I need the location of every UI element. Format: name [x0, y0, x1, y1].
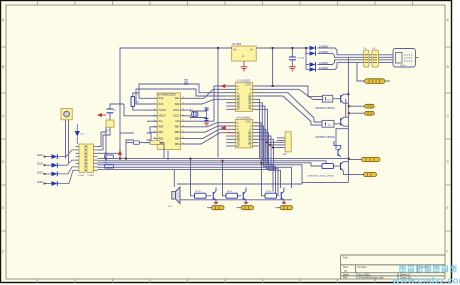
wire transistorA collector/emitter	[344, 93, 349, 95]
svg-text:R6 1k: R6 1k	[227, 191, 232, 193]
reset switch S1	[106, 120, 114, 132]
wire mcu rb0 to connB	[186, 123, 227, 127]
svg-text:10: 10	[182, 143, 184, 145]
svg-text:RB0: RB0	[159, 126, 164, 129]
transistor Q7	[334, 141, 341, 157]
svg-text:RA2: RA2	[159, 97, 164, 100]
led D8	[44, 170, 76, 186]
wire emitter rail bottom cells	[180, 199, 292, 201]
svg-text:LED1: LED1	[37, 154, 44, 157]
wire pill1 stub	[348, 105, 364, 107]
wire crystal to osc2	[186, 116, 194, 118]
svg-text:PLUG: PLUG	[400, 65, 406, 67]
transistor Q4	[339, 94, 344, 103]
wire conn B drop 5	[259, 136, 271, 167]
svg-text:16: 16	[182, 109, 184, 111]
svg-text:U4 ULN2003: U4 ULN2003	[237, 116, 251, 119]
wire reset to mcu mclr	[124, 104, 147, 116]
wire bus line 6	[98, 169, 277, 171]
svg-text:(CDTB5TA-HPF00): (CDTB5TA-HPF00)	[315, 136, 335, 139]
svg-text:OSC2: OSC2	[173, 115, 180, 118]
title block outline	[341, 255, 445, 279]
bus inline component F2	[104, 153, 114, 159]
pill connector P4	[364, 172, 377, 176]
svg-text:17: 17	[182, 103, 184, 105]
cap bar CB2	[372, 50, 378, 67]
svg-text:U1 7805: U1 7805	[232, 43, 242, 46]
svg-text:F: F	[447, 250, 449, 254]
svg-text:RB1: RB1	[159, 131, 164, 134]
led D5	[44, 150, 76, 159]
wire big top loop	[120, 48, 232, 157]
wire mcu loop A	[139, 84, 226, 98]
svg-text:16COL8DRV: 16COL8DRV	[248, 130, 252, 145]
sip resistor pack	[283, 132, 291, 156]
pill connector P2	[365, 111, 375, 115]
transistor Q6	[339, 162, 344, 171]
wire mcu vdd to power arrow	[186, 86, 222, 121]
svg-text:R7 1k: R7 1k	[266, 191, 271, 193]
wire mcu pin18 to connA	[186, 99, 227, 104]
svg-text:RB4: RB4	[175, 143, 180, 146]
wire speaker top feed	[173, 170, 175, 187]
svg-text:5: 5	[154, 120, 155, 122]
wire bus line 3	[98, 163, 323, 166]
svg-text:7: 7	[154, 131, 155, 133]
wire drop to cell1 resistor	[191, 159, 195, 196]
wire crystal caps junction	[197, 108, 207, 111]
wire mcu rb2 to connB	[186, 129, 227, 138]
resistor R5	[195, 191, 212, 198]
wire conn A drop 3	[259, 106, 265, 163]
pill connector P3	[362, 157, 380, 161]
pill connector P1	[365, 104, 375, 108]
wire rail y184	[177, 183, 302, 185]
caps C1 C2	[205, 108, 209, 121]
wire conn A pin to relay cell B	[259, 93, 322, 122]
wire sip pack feeds	[267, 141, 277, 143]
border tick marks top	[38, 1, 413, 5]
wire diode pair to mcu	[147, 127, 158, 133]
regulator U1 7805	[226, 46, 256, 61]
svg-text:13: 13	[182, 125, 184, 127]
wire bus line 1	[98, 158, 349, 160]
svg-text:CON: CON	[246, 121, 251, 123]
ground symbol under regulator	[241, 67, 248, 72]
wire pill2 stub	[348, 112, 364, 114]
relay K1	[322, 95, 332, 102]
wire r pullup to mcu	[133, 107, 147, 111]
diode D3	[310, 62, 316, 66]
svg-text:Vdd: Vdd	[175, 120, 180, 123]
wire connB left stubs	[226, 135, 235, 137]
wire mcu under drop 1	[126, 143, 168, 161]
junction dots	[105, 47, 350, 164]
wire transistorB collector/emitter	[344, 116, 349, 118]
wire bus line 5	[98, 167, 292, 188]
power arrow bus	[119, 151, 122, 158]
svg-text:1N4007: 1N4007	[319, 45, 329, 49]
svg-text:R5 1k: R5 1k	[196, 191, 201, 193]
resistor R1 vertical	[131, 97, 140, 107]
wire vcc rail y86 to relay cell A	[259, 86, 323, 97]
buzzer LS2	[61, 109, 72, 120]
svg-text:OSC1: OSC1	[173, 109, 180, 112]
resistor R2 small yellow	[145, 141, 164, 145]
wire diode feed vertical left	[305, 48, 307, 69]
bus inline component F3	[104, 162, 114, 168]
svg-text:15: 15	[182, 114, 184, 116]
wire regulator gnd	[243, 61, 245, 67]
ground symbol crystal	[204, 123, 209, 125]
capacitor C7	[289, 57, 296, 60]
svg-text:F: F	[2, 250, 4, 254]
red pin stub connB	[226, 132, 235, 134]
svg-text:Number: Number	[358, 265, 367, 269]
ground symbol under C7	[289, 67, 296, 72]
wire right vertical main	[347, 57, 349, 182]
wire reset vertical a	[105, 127, 107, 161]
relay K2	[322, 120, 334, 127]
svg-text:C7 104: C7 104	[297, 58, 305, 60]
svg-text:MCLR: MCLR	[159, 115, 166, 118]
wire fuse out	[385, 80, 390, 82]
svg-text:11: 11	[182, 137, 184, 139]
svg-text:D:\Protel\MyDesign.ddb: D:\Protel\MyDesign.ddb	[356, 276, 384, 280]
wire relayA to transistorA	[333, 98, 339, 100]
wire conn A pin to relay cell A lower	[259, 89, 323, 99]
left connector bar J2	[87, 144, 98, 177]
transistor Q2	[243, 188, 246, 204]
wire conn B drop 6	[259, 139, 274, 169]
wire pill4 stub	[343, 171, 363, 175]
connector IC U3	[226, 80, 259, 112]
wire mcu rb1 to connB	[186, 126, 227, 132]
svg-text:RB2: RB2	[159, 137, 164, 140]
wire conn A drop 4	[259, 109, 268, 165]
svg-text:L293D RC5a-F00(a-DIP32): L293D RC5a-F00(a-DIP32)	[307, 175, 334, 177]
transistor Q5	[339, 117, 344, 126]
wire transistor4 emitter	[343, 161, 348, 163]
svg-text:12: 12	[182, 131, 184, 133]
left connector bar J1	[76, 144, 87, 177]
svg-text:RB7: RB7	[175, 126, 180, 129]
wire conn A drop 2	[259, 103, 263, 161]
pill connector P5	[207, 206, 224, 210]
resistor R7	[265, 191, 279, 198]
svg-text:LED2: LED2	[37, 163, 44, 166]
cell4 resistor R8	[318, 164, 333, 169]
wire conn B drop 2	[259, 126, 276, 193]
mcu U2 PIC16F84	[154, 93, 186, 150]
wire conn A drop 1	[258, 99, 261, 158]
wire right vertical secondary	[345, 99, 347, 117]
red marks bottom cells	[214, 202, 286, 203]
pill connector P7	[276, 206, 293, 210]
wire connA pin1 stub	[223, 85, 236, 87]
svg-text:www.cndzz.com: www.cndzz.com	[392, 275, 460, 285]
watermark chinese characters	[400, 266, 405, 272]
svg-text:16COL8DRV: 16COL8DRV	[248, 94, 252, 109]
svg-text:3: 3	[154, 109, 155, 111]
wire conn B drop 1	[259, 123, 273, 192]
svg-text:RB5: RB5	[175, 137, 180, 140]
svg-text:1N4007: 1N4007	[319, 61, 329, 65]
fuse F1	[365, 79, 385, 84]
svg-text:CON: CON	[246, 85, 251, 87]
svg-text:RB6: RB6	[175, 131, 180, 134]
wire bottom rail to right vertical	[302, 181, 348, 183]
svg-text:6: 6	[154, 125, 155, 127]
svg-text:LED4: LED4	[37, 181, 44, 184]
svg-text:RA3: RA3	[159, 103, 164, 106]
led D6	[44, 160, 76, 168]
resistor R6	[226, 191, 241, 198]
svg-text:1N4007: 1N4007	[319, 50, 329, 54]
svg-text:U3 ULN2003: U3 ULN2003	[237, 80, 251, 83]
wire mcu pin17 to connA	[186, 89, 227, 98]
svg-text:CON8: CON8	[88, 175, 95, 177]
diode labels	[319, 45, 329, 71]
title block text	[343, 255, 430, 279]
power plug J3	[393, 49, 419, 68]
wire cell4 resistor to transistor	[333, 165, 338, 167]
wire vertical drop at x272.6	[272, 48, 274, 86]
wire cap C7 branch	[291, 48, 293, 57]
reset cap C3	[107, 109, 114, 113]
wire connector upper pins to mcu area	[98, 127, 121, 158]
svg-text:1N4007: 1N4007	[319, 66, 329, 70]
transistor Q1	[213, 188, 216, 204]
svg-text:ULN2003AN: ULN2003AN	[237, 94, 241, 109]
svg-text:Title: Title	[343, 255, 348, 259]
cap bar CB1	[364, 50, 369, 67]
svg-text:14: 14	[182, 120, 184, 122]
power arrow conn B	[222, 127, 227, 130]
svg-text:8: 8	[154, 137, 155, 139]
led D7	[44, 167, 76, 176]
wire buzzer leads	[65, 120, 67, 159]
speaker LS1	[172, 187, 180, 204]
wire conn A pin to relay cell B lower	[259, 96, 322, 125]
svg-text:CON8: CON8	[78, 175, 85, 177]
diode D9 vertical	[75, 124, 84, 144]
led labels	[37, 154, 44, 184]
wire mcu loop B	[136, 89, 226, 104]
wire bus line 4	[98, 165, 303, 184]
cap connect wires	[206, 110, 208, 123]
wire drop to cell2 resistor	[223, 161, 227, 196]
connector IC U4	[226, 116, 259, 148]
svg-text:(CDTB5TA-HPF00): (CDTB5TA-HPF00)	[315, 107, 335, 110]
wire r pullup top	[133, 93, 139, 97]
svg-text:TOCKI: TOCKI	[159, 109, 167, 112]
diode D2	[310, 51, 316, 55]
wire conn B drop 3	[259, 129, 278, 195]
wire vertical jog left	[336, 129, 348, 150]
crystal Y1	[190, 109, 198, 118]
border tick marks bottom	[38, 279, 413, 283]
power arrow left of C3	[98, 114, 106, 117]
svg-text:U2 AT89C2051X: U2 AT89C2051X	[157, 93, 176, 96]
svg-text:RA0: RA0	[175, 103, 180, 106]
wire drop to cell3 resistor	[262, 163, 266, 196]
svg-text:RA1: RA1	[175, 97, 180, 100]
svg-text:B: B	[345, 269, 347, 273]
wire reset vertical b	[109, 113, 111, 127]
wire rectified lines to plug	[318, 48, 394, 55]
resistor R3 small blue	[134, 141, 140, 144]
wire reset top	[110, 104, 124, 109]
wire crystal to osc1	[186, 109, 194, 112]
wire pill3 stub	[348, 159, 361, 161]
svg-text:ULN2003AN: ULN2003AN	[237, 131, 241, 146]
svg-text:1: 1	[154, 97, 155, 99]
wire relayB to transistorB	[334, 123, 339, 125]
svg-text:18: 18	[182, 97, 184, 99]
diode D4	[310, 67, 316, 71]
svg-text:2: 2	[154, 103, 155, 105]
wire connA left stubs	[226, 102, 235, 104]
pill connector P6	[237, 206, 254, 210]
border tick marks sides	[1, 47, 451, 231]
power arrow conn A	[222, 85, 227, 88]
wire mcu left lower stubs	[147, 109, 157, 111]
wire conn B drop 4	[259, 133, 281, 188]
diode D1	[310, 46, 316, 50]
wire vertical drop at x218	[217, 48, 219, 157]
wire regulator output to diode section	[256, 47, 309, 49]
svg-text:LED3: LED3	[37, 171, 44, 174]
wire fuse feed	[357, 63, 365, 81]
transistor Q3	[281, 188, 284, 204]
svg-text:4: 4	[154, 114, 155, 116]
svg-text:G: G	[242, 55, 244, 58]
wire mcu rb3 to connB	[186, 133, 227, 144]
svg-text:File:: File:	[343, 276, 348, 280]
wire bus line 2	[98, 161, 327, 164]
